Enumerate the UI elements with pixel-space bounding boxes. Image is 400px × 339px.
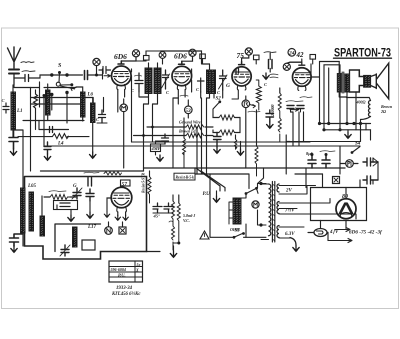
value table <box>109 261 143 282</box>
ground right of box <box>147 246 177 257</box>
bus B+ y168 <box>41 168 346 171</box>
arrow under 42 <box>290 108 299 111</box>
diagonal wires to transformer <box>196 168 225 237</box>
caption 1933-34 <box>111 286 141 297</box>
svg-text:P.U.: P.U. <box>118 273 126 278</box>
wire V1 cathode legs <box>118 90 125 113</box>
power transformer secondary 3 <box>277 226 304 239</box>
circled PH <box>340 160 358 168</box>
svg-text:6D6 -75 -42 -3f: 6D6 -75 -42 -3f <box>349 230 383 236</box>
wire x143 riser <box>144 104 149 171</box>
wire 6.3V curve to gnd <box>290 238 299 252</box>
wire antenna to switch <box>14 75 76 88</box>
output transformer primary <box>337 62 347 98</box>
risers under 42 <box>291 112 304 146</box>
svg-text:G: G <box>73 184 77 189</box>
circled M meter <box>120 99 128 168</box>
junction dots right column <box>318 122 362 131</box>
svg-text:4MF: 4MF <box>151 146 161 151</box>
label 900kc <box>21 61 34 64</box>
resistor R 40000 horizontal <box>213 115 240 120</box>
grid cap circle V2 <box>182 49 196 61</box>
resistor vertical right of box <box>148 171 151 203</box>
coil L1 antenna <box>11 74 23 138</box>
power transformer primary <box>261 184 271 240</box>
small resistor det out <box>234 135 237 149</box>
svg-text:KIT.456 6½Kc: KIT.456 6½Kc <box>111 292 141 297</box>
V2 legs down <box>178 90 185 104</box>
svg-text:S3: S3 <box>235 229 241 234</box>
coil L5 mid <box>90 98 96 159</box>
capacitor C3 coupling <box>85 71 103 80</box>
cap + ground bottom-left <box>10 234 24 252</box>
wire switch column A <box>50 93 53 110</box>
svg-text:L05: L05 <box>27 184 37 189</box>
svg-text:42: 42 <box>296 51 305 59</box>
speaker frame <box>350 70 364 130</box>
bottom bus y237 <box>210 236 266 238</box>
avc riser <box>183 118 185 138</box>
resistor 250k vertical <box>271 88 281 142</box>
bus y146 <box>44 145 360 147</box>
svg-text:75: 75 <box>237 51 245 60</box>
wire bus y123 <box>23 120 84 122</box>
svg-text:X: X <box>135 268 139 273</box>
wire T1 bottoms <box>139 92 158 104</box>
small box L17 <box>82 240 95 250</box>
svg-text:Resist·5·STR: Resist·5·STR <box>142 172 146 193</box>
circled 53 <box>185 100 193 118</box>
risers right section <box>306 146 360 241</box>
trimmer capacitor T2 <box>219 70 231 90</box>
resistor R vc2 <box>173 195 196 245</box>
wire V1 plate riser <box>130 69 133 142</box>
wire to coupling cap <box>52 74 67 76</box>
output transformer secondary <box>345 74 349 124</box>
trimmer capacitor T1 <box>162 70 170 89</box>
tube V1 6D6 <box>112 52 132 90</box>
grid cap circle V1 <box>121 50 139 61</box>
svg-text:Resist·B·5·k: Resist·B·5·k <box>176 175 195 179</box>
coil L05 tall left <box>21 184 37 233</box>
svg-text:S4: S4 <box>355 142 361 147</box>
capacitor C10 + gnd <box>214 133 222 154</box>
label 400 ohm <box>356 100 366 105</box>
coil L6 <box>76 87 94 121</box>
riser x360 <box>361 124 367 142</box>
grid cap circle V3 <box>242 48 253 62</box>
antenna <box>8 47 21 68</box>
inner box 2 <box>55 224 101 252</box>
svg-text:L6: L6 <box>87 93 94 98</box>
wire switch column B <box>65 91 68 123</box>
label 470pf <box>270 74 278 78</box>
tube V3 75 <box>232 51 251 99</box>
ground below bus <box>345 130 351 139</box>
power transformer secondary 2 <box>277 199 356 220</box>
circled pin 6 <box>159 52 166 64</box>
node dot <box>50 73 53 76</box>
wire x152 riser <box>153 104 158 142</box>
volume control resistor <box>256 80 261 110</box>
coil L8 inner left <box>29 192 34 231</box>
caps pair C12 C13 <box>286 101 304 112</box>
svg-text:596-6004: 596-6004 <box>111 267 126 272</box>
svg-text:Brown Ld: Brown Ld <box>178 129 197 134</box>
svg-text:L17: L17 <box>87 225 97 230</box>
svg-text:400Ω: 400Ω <box>356 100 366 105</box>
capacitor C2 <box>14 71 40 82</box>
svg-text:2Ω: 2Ω <box>380 109 386 114</box>
speaker voice coil <box>364 75 371 87</box>
wire into V1 grid <box>102 69 104 79</box>
osc cap box <box>54 201 78 210</box>
resistor box V2 <box>200 54 206 64</box>
resistor R-avc2 horizontal <box>186 133 204 137</box>
avc wires horizontal <box>134 127 214 136</box>
circled R <box>242 100 256 108</box>
ground V5 cathode <box>104 198 128 220</box>
coupling capacitor C6 <box>264 52 276 72</box>
tuning gang capacitor <box>153 203 173 213</box>
IF transformer T1 primary coil <box>145 63 152 97</box>
resistor R 50000 horizontal <box>213 118 240 136</box>
label 50000ohm squiggle <box>104 172 122 176</box>
wire riser x173 <box>173 98 178 168</box>
resistor vertical x256 <box>255 110 258 176</box>
switch S1 <box>56 63 75 91</box>
4MF box + cap <box>151 134 169 161</box>
candohm resistor <box>229 198 241 232</box>
switch S3 <box>233 229 245 239</box>
IF transformer T1 secondary coil <box>154 63 161 97</box>
wire left edge riser x23 <box>13 130 23 246</box>
tube V6 80 <box>336 194 356 219</box>
power transformer core <box>272 182 274 243</box>
title SPARTON-73 <box>334 48 392 60</box>
bus y174 left <box>195 168 249 189</box>
switch S2 <box>213 97 221 116</box>
resistor box 1M <box>136 51 161 61</box>
wire top-left h97 <box>31 98 104 113</box>
terminal label box <box>174 173 195 180</box>
grid-cap node (circled X) <box>93 58 100 76</box>
switch S5 top <box>245 187 258 195</box>
svg-text:G: G <box>226 83 230 89</box>
riser x263 tap <box>258 168 264 184</box>
svg-text:8μf: 8μf <box>306 151 313 156</box>
oscillator box outline <box>25 177 147 260</box>
resistor R vc chain <box>169 195 175 250</box>
coil L7 inner <box>73 225 97 247</box>
trimmer cap G <box>72 184 82 199</box>
circled X (42 grid) <box>283 63 290 70</box>
tube V5 57 <box>111 180 132 212</box>
circled M2 <box>252 201 259 208</box>
speaker cone <box>371 63 389 99</box>
electrolytic cap 8mf A <box>306 151 316 168</box>
cap C11 + gnd <box>266 110 274 128</box>
tube V2 6D6 <box>172 52 192 90</box>
vertical label resist <box>142 172 146 193</box>
svg-text:V.C.: V.C. <box>183 218 190 223</box>
cap pair near 57 <box>84 172 99 218</box>
capacitor left of V1 <box>99 67 111 74</box>
resistor 50000 osc <box>44 191 76 200</box>
capacitor C4 (V1 plate) <box>135 73 144 92</box>
switch S4 <box>351 142 361 154</box>
wire x201 riser <box>161 51 210 174</box>
electrolytic cap 8mf B <box>320 151 335 168</box>
bus y174 <box>295 173 323 175</box>
bus right y123.5 <box>320 123 371 125</box>
arrow top <box>335 228 350 232</box>
resistor box V4 <box>310 55 316 65</box>
wire left riser x30.5 <box>30 88 32 172</box>
wires into transformer left <box>241 182 266 237</box>
ground det out <box>237 142 243 156</box>
capacitor C7 + ground at left <box>9 130 18 155</box>
svg-text:2V: 2V <box>285 189 293 194</box>
box 45 <box>153 214 161 219</box>
wire PU <box>203 191 220 202</box>
svg-text:24: 24 <box>288 51 295 57</box>
circled 24 <box>288 49 296 57</box>
capacitor C8 L4 <box>44 142 51 160</box>
warning triangle <box>200 231 209 239</box>
riser x286 <box>286 135 290 174</box>
svg-text:45°: 45° <box>153 214 161 219</box>
avc text ground wire <box>178 120 201 134</box>
power transformer secondary 1 <box>277 184 316 194</box>
svg-text:7½V: 7½V <box>285 209 295 214</box>
riser speaker field <box>371 130 374 184</box>
coil L9 <box>40 196 45 236</box>
svg-text:250000: 250000 <box>271 105 275 117</box>
wire x206 riser <box>197 98 210 174</box>
wire 42 plate risers <box>302 59 340 130</box>
IF transformer T2 coil B <box>211 70 216 94</box>
circled N <box>105 222 113 234</box>
speaker field caps <box>363 158 378 184</box>
coil L4 horizontal <box>18 134 89 147</box>
svg-text:L1: L1 <box>16 109 23 114</box>
C labels scatter <box>96 82 268 122</box>
ground osc box <box>68 210 74 222</box>
coil L2 <box>34 82 51 146</box>
arrow bottom <box>328 239 352 243</box>
resistor R-avc1 horizontal <box>186 125 204 129</box>
bus right y129.8 <box>324 129 371 131</box>
avc arrow into V1 <box>104 74 111 77</box>
resistor box V3 <box>254 55 260 64</box>
small cap on wire <box>50 127 53 133</box>
rectifier loop box <box>311 188 367 221</box>
capacitor C9 mid <box>97 110 107 123</box>
output transformer core <box>342 72 344 93</box>
field coil hum <box>347 98 393 124</box>
box 51 <box>119 222 126 234</box>
capacitor C1 (antenna series) <box>9 70 19 79</box>
svg-text:6.3V: 6.3V <box>285 232 295 237</box>
trimmer cap inner box <box>60 245 70 256</box>
small cap at frame left <box>2 98 10 113</box>
svg-text:6D6: 6D6 <box>114 52 127 61</box>
box 58 <box>333 177 340 184</box>
IF transformer T2 coil A <box>207 64 212 98</box>
wire V2 plate riser <box>192 69 201 98</box>
wire bus y129.5 <box>36 113 69 130</box>
svg-text:6D6: 6D6 <box>174 52 187 61</box>
svg-text:5x: 5x <box>137 262 141 267</box>
squiggle labels extra <box>180 95 312 112</box>
ground (C6) <box>263 73 269 79</box>
dial lamp <box>308 229 328 237</box>
tube V4 42 <box>287 62 311 90</box>
det section coils right of T2 <box>214 90 223 98</box>
svg-text:1933-34: 1933-34 <box>116 286 133 291</box>
bus right yend <box>290 142 360 147</box>
bus y142 <box>132 141 311 143</box>
riser x246 <box>245 96 247 168</box>
capacitor C5 (V2 out) <box>198 78 205 92</box>
svg-text:Ground Wire: Ground Wire <box>179 120 201 125</box>
